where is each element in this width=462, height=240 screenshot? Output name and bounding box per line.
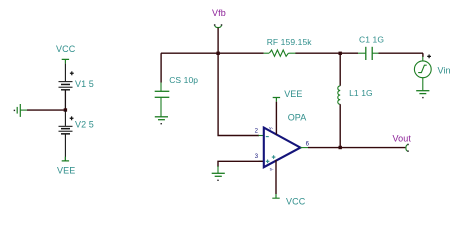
svg-text:VCC: VCC — [56, 44, 76, 54]
battery V1 plus mark — [70, 71, 74, 75]
op-amp pin 2 stub — [259, 135, 264, 137]
svg-text:2: 2 — [255, 129, 259, 135]
svg-text:3: 3 — [255, 154, 259, 160]
wire top rail mid segment — [295, 52, 358, 54]
ground (rotated) at left — [17, 104, 27, 117]
wire V2 to VEE bar — [64, 134, 66, 161]
power symbol VCC below op-amp — [272, 194, 279, 198]
op-amp V+ power mark — [272, 155, 276, 159]
junction between V1 and V2 — [64, 108, 67, 111]
wire ground to junction — [27, 109, 65, 111]
wire L1 down to output net — [339, 104, 341, 147]
source Vin waveform glyph — [418, 65, 427, 72]
op-amp OPA triangle — [264, 128, 301, 168]
inductor L1 — [338, 86, 340, 104]
op-amp output stub pin 6 — [300, 147, 308, 149]
svg-text:s-: s- — [270, 167, 274, 172]
svg-text:6: 6 — [306, 141, 310, 147]
svg-text:V1 5: V1 5 — [75, 79, 94, 89]
ground zero dot — [217, 180, 218, 181]
source Vin plus mark — [427, 55, 431, 59]
op-amp noninverting mark — [266, 160, 270, 164]
svg-text:CS 10p: CS 10p — [169, 75, 198, 85]
op-amp pin 3 stub — [259, 160, 264, 162]
resistor RF — [264, 50, 296, 56]
wire V1 to mid junction — [64, 90, 66, 110]
battery V1 — [59, 81, 73, 90]
wire output to Vout — [308, 147, 405, 149]
power symbol VEE (bar) — [62, 157, 69, 161]
net port symbol Vfb — [215, 25, 222, 27]
wire Vfb down to op-amp pin 2 — [218, 53, 259, 135]
battery V2 — [59, 126, 73, 135]
svg-text:Vout: Vout — [393, 133, 412, 143]
net port symbol Vout — [406, 145, 408, 151]
svg-text:C1 1G: C1 1G — [359, 34, 384, 44]
ground lead under pin 3 — [217, 166, 219, 173]
junction node Vfb — [216, 52, 219, 55]
wire pin 3 to ground — [218, 161, 263, 167]
svg-text:OPA: OPA — [288, 112, 307, 122]
ground zero dot — [14, 110, 15, 111]
op-amp inverting mark — [266, 136, 269, 138]
svg-text:L1 1G: L1 1G — [349, 88, 373, 98]
svg-text:VCC: VCC — [286, 196, 306, 206]
source Vin lead top — [422, 57, 424, 62]
capacitor CS — [155, 83, 170, 117]
svg-text:VEE: VEE — [57, 166, 75, 176]
junction node output/L1 — [339, 146, 342, 149]
wire op-amp bottom to VCC — [275, 160, 277, 194]
svg-text:Vfb: Vfb — [212, 8, 226, 18]
svg-text:Vin: Vin — [438, 66, 451, 76]
wire Vfb stem — [217, 28, 219, 54]
inductor L1 branch wire top — [339, 53, 341, 86]
capacitor C1 — [358, 47, 379, 60]
svg-text:V2 5: V2 5 — [75, 119, 94, 129]
wire CS branch down — [160, 53, 162, 82]
svg-text:v-: v- — [269, 125, 273, 130]
source Vin lead bottom — [422, 78, 424, 91]
junction node at RF/C1/L1 — [339, 52, 342, 55]
wire C1 to Vin corner — [422, 53, 424, 57]
ground under Vin — [416, 91, 429, 94]
ground under pin 3 — [212, 173, 225, 176]
wire junction to V2 — [64, 110, 66, 126]
ground zero dot — [161, 123, 162, 124]
ground zero dot — [422, 97, 423, 98]
source Vin circle — [414, 61, 431, 78]
wire top rail left segment — [161, 52, 264, 54]
power symbol VEE above op-amp — [273, 98, 280, 102]
ground under CS — [155, 117, 168, 120]
wire VEE to op-amp top — [275, 102, 277, 135]
wire VCC bar to V1 — [64, 64, 66, 82]
battery V2 plus mark — [70, 116, 74, 120]
power symbol VCC (bar) — [62, 59, 69, 63]
svg-text:RF 159.15k: RF 159.15k — [267, 37, 313, 47]
wire top rail right segment — [379, 52, 424, 54]
svg-text:VEE: VEE — [284, 89, 302, 99]
